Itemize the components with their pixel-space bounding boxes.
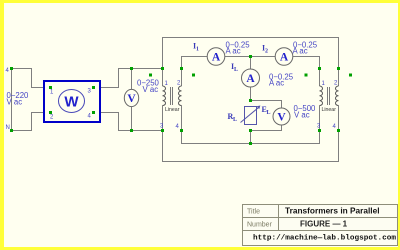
svg-text:V ac: V ac xyxy=(143,85,159,94)
yellow frame bottom xyxy=(0,247,400,250)
wire W pin3 to node T1-1 xyxy=(100,69,163,88)
voltmeter V2 circle xyxy=(273,108,290,125)
svg-text:L: L xyxy=(267,110,271,116)
ammeter A3 circle xyxy=(242,69,260,87)
wattmeter pin 4 xyxy=(92,111,95,114)
node T1 pin2 xyxy=(180,67,183,70)
svg-text:L: L xyxy=(233,117,237,123)
wire T1 pin stubs xyxy=(163,69,182,131)
svg-text:A: A xyxy=(280,52,289,64)
node load bottom xyxy=(249,129,252,132)
transformer T1 pin numbers xyxy=(160,81,181,131)
node T2 pin3 xyxy=(318,129,321,132)
svg-text:FIGURE — 1: FIGURE — 1 xyxy=(300,219,348,228)
wire load tap down xyxy=(250,131,252,144)
wattmeter U1 box xyxy=(44,81,100,122)
wattmeter U1 ellipse xyxy=(59,90,85,113)
transformer T1 xyxy=(163,86,182,106)
svg-text:A ac: A ac xyxy=(269,79,284,88)
node load top xyxy=(249,99,252,102)
node ammeter junction xyxy=(249,55,252,58)
svg-text:Number: Number xyxy=(247,222,273,229)
svg-text:A: A xyxy=(246,73,255,85)
node T1 pin3 xyxy=(161,129,164,132)
rheostat R1 box xyxy=(245,107,257,125)
wire ammeter row xyxy=(182,57,320,69)
wire voltmeter V1 stub top xyxy=(131,69,133,92)
node T2 pin1 xyxy=(318,67,321,70)
wire source vertical xyxy=(11,69,13,131)
wire ammeter A3 vertical xyxy=(250,57,252,101)
yellow frame top xyxy=(0,0,400,3)
node T1 pin1 xyxy=(161,67,164,70)
svg-text:A ac: A ac xyxy=(226,47,241,56)
svg-text:Linear: Linear xyxy=(322,107,337,113)
svg-text:http://machine—lab.blogspot.co: http://machine—lab.blogspot.com xyxy=(253,235,396,243)
ammeter A2 circle xyxy=(275,48,293,66)
wire net T1-3 to T2-4 xyxy=(163,131,339,162)
wire source bottom to W pin2 xyxy=(12,113,45,131)
svg-text:V: V xyxy=(127,93,136,105)
wire T2 pin stubs xyxy=(320,69,339,131)
svg-text:2: 2 xyxy=(265,49,268,55)
node V1 bottom junction xyxy=(130,129,133,132)
wire load loop V2 xyxy=(251,101,282,131)
node V1 top junction xyxy=(130,67,133,70)
node source top xyxy=(10,67,13,70)
transformer T2 xyxy=(320,86,339,106)
svg-text:V ac: V ac xyxy=(294,111,310,120)
svg-text:V ac: V ac xyxy=(7,98,23,107)
connector dot c xyxy=(305,74,308,77)
rheostat R1 arrow xyxy=(241,106,261,123)
wire voltmeter V1 stub bottom xyxy=(131,105,133,131)
svg-text:W: W xyxy=(64,94,79,111)
transformer T2 pin numbers xyxy=(317,81,338,131)
svg-text:A ac: A ac xyxy=(293,47,308,56)
node T2 pin4 xyxy=(337,129,340,132)
svg-text:Transformers in Parallel: Transformers in Parallel xyxy=(285,206,380,216)
ammeter A1 circle xyxy=(207,48,225,66)
node net tap xyxy=(249,142,252,145)
svg-text:1: 1 xyxy=(196,47,199,53)
wattmeter pin 2 xyxy=(49,111,52,114)
svg-text:Linear: Linear xyxy=(165,107,180,113)
svg-text:L: L xyxy=(234,67,238,73)
wire top bus T1-1 to T2-2 xyxy=(163,38,339,69)
node T2 pin2 xyxy=(337,67,340,70)
connector dot b xyxy=(192,74,195,77)
connector dot a xyxy=(149,74,152,77)
wire net T1-4 to T2-3 xyxy=(182,131,320,144)
svg-text:Title: Title xyxy=(247,209,260,216)
wire W pin4 to node T1-3 xyxy=(100,113,163,131)
yellow frame right xyxy=(398,0,400,250)
svg-text:N: N xyxy=(6,125,10,131)
wattmeter pin 1 xyxy=(49,86,52,89)
node T1 pin4 xyxy=(180,129,183,132)
svg-text:V: V xyxy=(277,112,286,124)
connector dot d xyxy=(349,74,352,77)
node source bottom xyxy=(10,129,13,132)
yellow frame left xyxy=(0,0,4,250)
wattmeter pin 3 xyxy=(92,86,95,89)
voltmeter V1 circle xyxy=(124,89,138,106)
svg-text:A: A xyxy=(212,52,221,64)
wattmeter pin labels xyxy=(50,89,92,121)
title block frame xyxy=(243,205,398,246)
wire source top to W pin1 xyxy=(12,69,45,88)
